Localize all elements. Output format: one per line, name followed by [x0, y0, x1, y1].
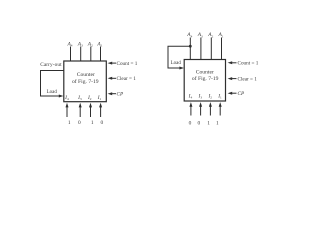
- svg-text:A2: A2: [207, 32, 213, 38]
- svg-text:I3: I3: [77, 95, 82, 101]
- wire I4 data input (right counter): [189, 102, 192, 115]
- svg-text:Count = 1: Count = 1: [117, 61, 138, 67]
- svg-text:Clear = 1: Clear = 1: [238, 77, 258, 83]
- wire carry-out to load feedback (left counter): [41, 71, 64, 98]
- svg-text:Clear = 1: Clear = 1: [117, 76, 137, 82]
- wire CP input (left counter): [108, 92, 116, 95]
- svg-text:A1: A1: [96, 41, 102, 47]
- wire A1 output top (left counter): [100, 47, 102, 62]
- wire A2 output top (right counter): [210, 38, 212, 60]
- wire A2 output top (left counter): [90, 47, 92, 62]
- svg-text:I4: I4: [64, 95, 69, 101]
- svg-text:Counter: Counter: [77, 72, 95, 78]
- counter U2 (Counter of Fig. 7-19, right): [184, 60, 225, 102]
- counter U1 (Counter of Fig. 7-19, left): [64, 61, 107, 102]
- svg-text:1: 1: [207, 120, 210, 126]
- svg-text:Carry-out: Carry-out: [40, 62, 62, 68]
- svg-text:A1: A1: [218, 32, 224, 38]
- svg-text:1: 1: [91, 120, 94, 126]
- svg-text:1: 1: [68, 120, 71, 126]
- svg-text:Count = 1: Count = 1: [238, 61, 259, 67]
- wire Clear input (right counter): [228, 77, 237, 80]
- arrowhead load input (right counter): [179, 67, 184, 70]
- svg-text:A2: A2: [87, 41, 93, 47]
- svg-text:CP: CP: [238, 91, 245, 97]
- svg-text:Load: Load: [171, 61, 182, 66]
- svg-text:CP: CP: [117, 92, 124, 98]
- svg-text:0: 0: [78, 120, 81, 126]
- svg-text:I1: I1: [217, 94, 222, 100]
- svg-text:A3: A3: [197, 32, 203, 38]
- svg-text:I2: I2: [87, 95, 92, 101]
- svg-text:0: 0: [100, 120, 103, 126]
- wire A3 output top (right counter): [200, 38, 202, 60]
- svg-text:I1: I1: [97, 95, 102, 101]
- wire Count input (left counter): [108, 62, 116, 65]
- wire I1 data input (right counter): [219, 102, 222, 115]
- svg-text:A4: A4: [186, 32, 192, 38]
- junction dot on A4 line: [189, 45, 192, 48]
- svg-text:of Fig. 7-19: of Fig. 7-19: [192, 75, 219, 82]
- svg-text:A3: A3: [77, 41, 83, 47]
- wire Count input (right counter): [228, 61, 237, 64]
- wire I3 data input (left counter): [79, 103, 82, 117]
- wire I2 data input (left counter): [89, 103, 92, 117]
- wire I1 data input (left counter): [99, 103, 102, 117]
- wire A1 output top (right counter): [221, 38, 223, 60]
- svg-text:I3: I3: [198, 94, 203, 100]
- svg-text:Load: Load: [47, 90, 58, 95]
- svg-text:1: 1: [216, 120, 219, 126]
- svg-text:I4: I4: [188, 94, 193, 100]
- wire I4 data input (left counter): [66, 103, 69, 117]
- wire A3 output top (left counter): [80, 47, 82, 62]
- wire A4 output top (left counter): [70, 47, 72, 62]
- svg-text:I2: I2: [207, 94, 212, 100]
- svg-text:of Fig. 7-19: of Fig. 7-19: [72, 78, 99, 85]
- wire A4 output top (right counter): [189, 38, 191, 60]
- svg-text:A4: A4: [67, 41, 73, 47]
- svg-text:Counter: Counter: [196, 70, 214, 76]
- wire CP input (right counter): [228, 92, 237, 95]
- wire A4 feedback to load (right counter): [168, 46, 190, 68]
- wire Clear input (left counter): [108, 77, 116, 80]
- wire I3 data input (right counter): [199, 102, 202, 115]
- svg-text:0: 0: [189, 120, 192, 126]
- wire I2 data input (right counter): [209, 102, 212, 115]
- svg-text:0: 0: [198, 120, 201, 126]
